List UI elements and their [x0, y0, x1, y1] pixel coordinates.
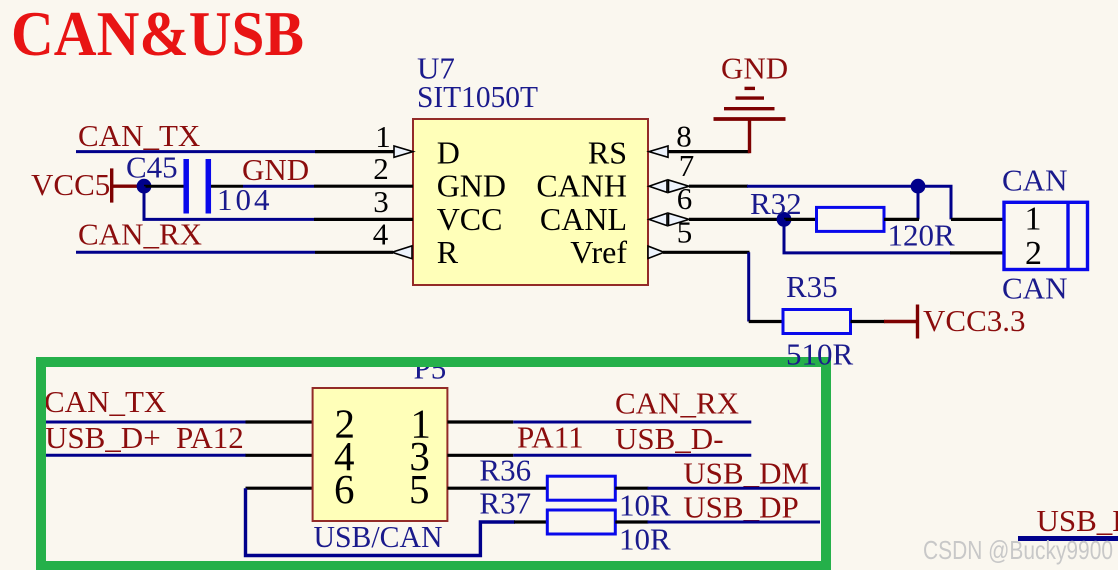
svg-text:R36: R36	[479, 453, 531, 488]
node junction dot CANH/R32	[911, 179, 926, 194]
svg-text:D: D	[437, 134, 460, 170]
svg-text:PA12: PA12	[176, 420, 244, 455]
svg-text:USB_D+: USB_D+	[45, 420, 161, 455]
pin 4 of P5	[246, 454, 313, 457]
svg-text:2: 2	[1025, 235, 1042, 272]
svg-text:VCC5: VCC5	[31, 167, 110, 202]
node junction dot CANL/R32	[777, 212, 792, 227]
svg-text:120R: 120R	[888, 218, 956, 253]
svg-text:R32: R32	[750, 186, 802, 221]
svg-text:USB_DM: USB_DM	[683, 456, 809, 491]
wire CAN_TX to U7 pin 1	[76, 150, 315, 153]
svg-text:1: 1	[1025, 201, 1042, 238]
svg-text:6: 6	[334, 466, 355, 512]
svg-text:3: 3	[373, 184, 389, 219]
pin 7 of U7	[649, 148, 748, 192]
wire R32 to CANH	[917, 186, 920, 219]
svg-text:CSDN @Bucky9900: CSDN @Bucky9900	[923, 535, 1113, 565]
capacitor C45	[126, 150, 208, 214]
resistor R32	[750, 186, 919, 232]
wire USB_DM	[648, 487, 821, 490]
svg-text:10R: 10R	[619, 522, 671, 557]
svg-text:CAN_TX: CAN_TX	[44, 384, 166, 419]
resistor R35	[749, 269, 885, 334]
svg-text:7: 7	[679, 148, 695, 183]
power symbol VCC3.3	[884, 303, 1026, 339]
pin 6 of U7	[649, 181, 784, 226]
svg-text:USB_D-: USB_D-	[615, 421, 724, 456]
wire USB_D- from P5 pin 3	[513, 454, 751, 457]
svg-text:P5: P5	[414, 351, 447, 386]
svg-text:2: 2	[373, 151, 389, 186]
svg-text:C45: C45	[126, 150, 178, 185]
svg-text:510R: 510R	[786, 337, 854, 372]
svg-text:GND: GND	[437, 168, 506, 204]
pin 4 of U7	[315, 217, 412, 259]
svg-text:4: 4	[373, 217, 389, 252]
svg-text:CAN: CAN	[1002, 163, 1067, 198]
wire dot down to U7 pin 3	[144, 186, 314, 219]
svg-text:5: 5	[677, 215, 693, 250]
svg-text:CAN_RX: CAN_RX	[78, 216, 202, 251]
wire dot to C45 left plate	[144, 185, 184, 188]
pin 2 of U7	[314, 151, 413, 186]
IC U7 body	[413, 119, 648, 285]
resistor R37	[479, 486, 648, 534]
svg-text:CAN&USB: CAN&USB	[11, 0, 304, 69]
wire Vref down	[747, 252, 750, 321]
node junction dot VCC5/C45	[137, 179, 152, 194]
pin 6 of P5	[246, 487, 313, 490]
pin 1 of U7	[315, 119, 413, 157]
wire C45 right plate to GND net	[211, 185, 243, 188]
wire P5 pin 6 loop to R37	[246, 488, 516, 555]
svg-text:VCC: VCC	[437, 201, 503, 237]
wire CAN_RX from P5 pin 1	[513, 421, 751, 424]
svg-text:5: 5	[409, 466, 430, 512]
wire CANH from pin 7	[747, 186, 951, 219]
svg-text:USB_DM: USB_DM	[1037, 503, 1118, 538]
ground symbol GND	[714, 51, 789, 154]
connector CAN body	[1004, 201, 1088, 273]
svg-text:PA11: PA11	[517, 419, 584, 454]
svg-text:VCC3.3: VCC3.3	[923, 303, 1026, 338]
wire CAN_TX to P5 pin 2	[45, 421, 246, 424]
svg-text:R: R	[437, 234, 459, 270]
resistor R36	[479, 453, 648, 501]
pin 8 of U7	[649, 118, 750, 157]
svg-text:SIT1050T: SIT1050T	[417, 79, 538, 114]
pin 3 of U7	[314, 184, 413, 219]
wire CAN_RX to U7 pin 4	[76, 251, 315, 254]
svg-text:USB/CAN: USB/CAN	[314, 519, 443, 554]
svg-text:10R: 10R	[619, 488, 671, 523]
svg-text:R37: R37	[479, 486, 531, 521]
wire GND net to U7 pin 2	[243, 185, 314, 188]
wire USB_D net	[1018, 536, 1118, 541]
wire CANL to CAN pin 2	[784, 219, 951, 253]
svg-text:USB_DP: USB_DP	[683, 490, 798, 525]
svg-text:CAN_RX: CAN_RX	[615, 386, 739, 421]
svg-text:1: 1	[375, 119, 391, 154]
svg-text:CANH: CANH	[536, 168, 627, 204]
svg-text:CAN_TX: CAN_TX	[78, 118, 200, 153]
pin 5 of P5	[447, 487, 547, 490]
svg-text:GND: GND	[721, 51, 788, 86]
pin 3 of P5	[447, 454, 513, 457]
svg-text:Vref: Vref	[570, 234, 627, 270]
svg-text:CAN: CAN	[1002, 271, 1067, 306]
wire CANH to CAN pin 1	[951, 218, 1004, 221]
svg-text:GND: GND	[242, 152, 309, 187]
svg-text:CANL: CANL	[540, 201, 627, 237]
wire USB_DP	[648, 521, 821, 524]
power symbol VCC5	[31, 167, 140, 203]
svg-text:RS: RS	[588, 134, 627, 170]
svg-text:6: 6	[677, 181, 693, 216]
wire CANL black stub to CAN pin 2	[950, 251, 1004, 254]
wire USB_D+ to P5 pin 4	[45, 454, 246, 457]
pin 2 of P5	[246, 420, 313, 423]
svg-text:R35: R35	[786, 269, 838, 304]
pin 1 of P5	[447, 420, 513, 423]
green highlight box	[41, 362, 826, 566]
pin 5 of U7	[648, 215, 750, 259]
connector P5 body	[313, 388, 448, 521]
